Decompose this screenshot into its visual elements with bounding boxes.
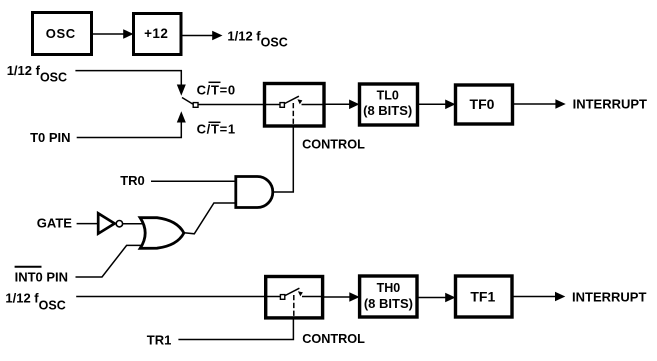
register TL0 (8 BITS) (360, 84, 418, 125)
svg-text:(8 BITS): (8 BITS) (363, 103, 412, 118)
wire inverter to OR gate (123, 223, 146, 225)
wire TH0 to TF1 (417, 293, 456, 303)
wire divider output to 1/12 fOSC label (181, 31, 223, 41)
wire AND output to control box 1 dashed line (274, 126, 294, 192)
svg-text:TL0: TL0 (377, 89, 399, 103)
AND gate (236, 177, 273, 208)
control switch box 2 (266, 277, 323, 318)
svg-text:TF1: TF1 (470, 289, 495, 305)
svg-text:INTERRUPT: INTERRUPT (573, 97, 647, 112)
wire control box 2 to TH0 (323, 292, 360, 302)
svg-text:(8 BITS): (8 BITS) (364, 296, 413, 311)
wire GATE to inverter (77, 223, 98, 225)
inverter NOT gate (98, 213, 122, 233)
svg-text:CONTROL: CONTROL (302, 332, 365, 346)
flag TF1 (456, 276, 513, 317)
svg-text:TF0: TF0 (470, 96, 495, 112)
label INT0 PIN (with overline) (15, 267, 68, 285)
flag TF0 (456, 85, 513, 124)
control switch box 1 (265, 84, 325, 127)
wire TL0 to TF0 (418, 100, 456, 110)
svg-text:C/T=1: C/T=1 (197, 122, 236, 137)
svg-text:C/T=0: C/T=0 (197, 83, 236, 98)
wire 1/12 fOSC to C/T switch (down arrow) (75, 71, 185, 96)
wire control box 1 to TL0 (324, 100, 359, 110)
svg-text:TR1: TR1 (147, 333, 172, 348)
svg-text:TR0: TR0 (120, 173, 145, 188)
register TH0 (8 BITS) (360, 276, 417, 317)
svg-text:OSC: OSC (46, 26, 76, 41)
wire TF0 to interrupt (top) (513, 99, 566, 109)
wire switch pole to control box 1 (199, 104, 265, 106)
oscillator block OSC (33, 13, 92, 55)
divider block +12 (134, 14, 182, 55)
svg-text:T0 PIN: T0 PIN (30, 130, 70, 145)
svg-text:INT0 PIN: INT0 PIN (15, 269, 68, 284)
wire OR output to AND gate lower input (184, 203, 236, 234)
svg-text:GATE: GATE (37, 215, 72, 230)
wire TR0 to AND gate (151, 180, 236, 182)
wire OSC to divide-by-12 block (92, 29, 134, 39)
svg-text:TH0: TH0 (377, 281, 401, 295)
wire TR1 to control box 2 dashed line (178, 318, 293, 340)
label C/T=1 (197, 122, 236, 137)
wire T0 PIN to C/T switch (up arrow) (77, 111, 186, 137)
wire 1/12 fOSC to control box 2 (76, 296, 266, 298)
switch C/T selector pole (182, 98, 198, 108)
wire TF1 to interrupt (bottom) (512, 292, 565, 302)
svg-text:+12: +12 (144, 26, 168, 41)
OR gate (140, 218, 184, 249)
wire INT0 PIN to OR gate (76, 245, 147, 277)
label C/T=0 (197, 82, 236, 97)
svg-text:CONTROL: CONTROL (302, 138, 365, 152)
svg-text:INTERRUPT: INTERRUPT (572, 289, 646, 304)
